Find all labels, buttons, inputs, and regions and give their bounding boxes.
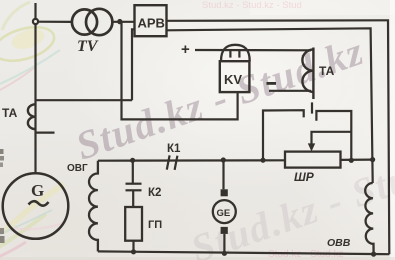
contact K: left jaw and lead down to rheostat wire [263, 110, 304, 160]
wire: APB upper output to outer right rail [167, 20, 390, 254]
svg-text:GЕ: GЕ [217, 208, 231, 219]
svg-text:ТА: ТА [319, 64, 335, 78]
svg-text:АРВ: АРВ [138, 16, 165, 31]
contact K1: dashes [167, 155, 178, 170]
exciter GE: bottom brush [221, 227, 228, 234]
current transformer TA (left) [28, 104, 36, 129]
wire: APB bottom-left output down [132, 29, 135, 100]
wire: TV junction down, right, up to KV [122, 22, 238, 120]
faint pink small texts [202, 0, 302, 11]
junction: dot OBB bottom [371, 252, 376, 257]
junction: dot rheostat right [349, 158, 354, 163]
winding OVG: generator field [89, 161, 98, 252]
winding OBB: exciter field on inner rail [365, 183, 373, 254]
svg-text:TV: TV [77, 38, 99, 55]
wire: bottom field bus [98, 251, 389, 254]
right edge light strip [390, 0, 395, 260]
wire: main field bus (top horizontal) [98, 159, 285, 162]
transformer TV [72, 9, 113, 35]
svg-text:К1: К1 [167, 143, 181, 155]
contact K: right jaw and lead down to rheostat wire [316, 111, 351, 160]
relay KV: dome and pins [221, 45, 250, 61]
exciter GE: armature circle [213, 200, 236, 223]
junction: dot at TV output [117, 19, 122, 24]
relay KV: box [220, 61, 250, 92]
wire: TA-left secondary bottom tap stub [36, 132, 55, 134]
generator G: stator circle [3, 173, 69, 239]
wire: bus to TV primary [38, 21, 72, 23]
svg-text:ОВГ: ОВГ [67, 163, 88, 174]
label tilde [29, 201, 49, 205]
wire: APB lower output to inner right rail (down to OBB winding) [167, 28, 373, 183]
resistor GP: box [125, 207, 142, 241]
junction: dot GP bottom [131, 249, 136, 254]
wire: GE branch top [222, 160, 224, 189]
label minus terminal [267, 82, 277, 85]
current transformer TA (right) [302, 48, 313, 100]
contact K2: lead and plates [132, 160, 134, 183]
wire: GP to bottom bus [132, 241, 134, 252]
wire: TA-left secondary top tap [36, 99, 133, 101]
svg-text:KV: KV [224, 72, 242, 87]
wire: minus lead to TA-right bottom [269, 90, 311, 92]
rheostat wiper arrow [312, 132, 352, 144]
svg-text:G: G [31, 181, 44, 200]
svg-text:К2: К2 [148, 187, 161, 199]
svg-text:ШР: ШР [294, 170, 315, 184]
junction: dot inner rail [370, 157, 375, 162]
svg-text:ТА: ТА [2, 106, 18, 120]
junction: dot GE top [221, 157, 226, 162]
watermark text main diagonal [70, 27, 370, 169]
wire: plus lead through KV plug to TA-right top [195, 49, 311, 51]
wire: TV to junction to APB box [112, 21, 135, 23]
regulator U1: APB box [135, 5, 167, 36]
junction: dot rheostat left [260, 158, 265, 163]
junction: dot GE bottom [222, 251, 227, 256]
rheostat ShR: box [285, 152, 341, 168]
contact K: blade [311, 102, 313, 113]
svg-text:+: + [181, 41, 190, 58]
svg-text:ГП: ГП [148, 219, 162, 231]
wire: GE branch bottom [223, 234, 225, 253]
svg-text:ОВВ: ОВВ [327, 237, 351, 249]
exciter GE: top brush [221, 189, 228, 196]
junction: dot K2 branch top [130, 158, 135, 163]
wire: generator bus vertical [34, 3, 36, 173]
node A: bus tap circle [33, 19, 38, 24]
watermark text bottom-right diagonal [185, 130, 395, 260]
